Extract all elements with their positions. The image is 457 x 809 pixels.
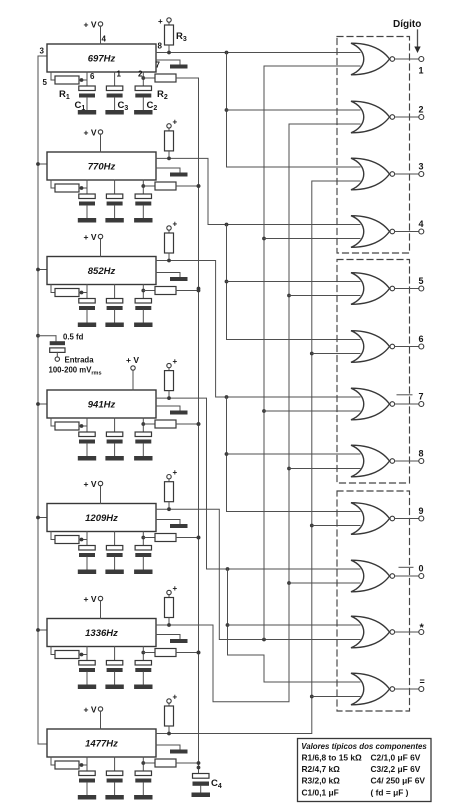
node +V (pin 4) of 1209Hz: [84, 479, 103, 504]
svg-text:C4: C4: [211, 778, 222, 790]
node output terminal digit 7: [419, 392, 424, 407]
NOR gate G12 (digit =): [351, 673, 419, 705]
capacitor (pin 1) of 941Hz: [106, 418, 122, 456]
capacitor (pin 6) of 941Hz: [79, 418, 95, 456]
resistor R3 of 770Hz: [165, 117, 178, 158]
svg-text:0.5 fd: 0.5 fd: [63, 333, 84, 342]
svg-text:R2/4,7 kΩ: R2/4,7 kΩ: [302, 764, 341, 774]
svg-text:+: +: [173, 357, 178, 366]
resistor R3 of 697Hz: [158, 17, 187, 53]
svg-text:852Hz: 852Hz: [88, 266, 116, 277]
ground (cap 2) of 941Hz: [105, 456, 123, 461]
ground (pin 7) of 697Hz: [156, 60, 188, 69]
svg-text:8: 8: [419, 449, 424, 459]
resistor R2 of 1336Hz: [141, 649, 200, 657]
svg-text:+: +: [173, 468, 178, 477]
svg-text:4: 4: [102, 35, 107, 44]
svg-text:5: 5: [419, 276, 424, 286]
wire stub at gate G7: [397, 394, 412, 396]
svg-text:0: 0: [419, 564, 424, 574]
node output terminal digit 1: [419, 57, 424, 76]
capacitor (pin 1) of 852Hz: [106, 285, 122, 323]
svg-text:100-200 mVrms: 100-200 mVrms: [49, 366, 102, 377]
svg-text:C1/0,1 μF: C1/0,1 μF: [302, 787, 339, 797]
NOR gate G6 (digit 6): [351, 331, 419, 363]
NOR gate G10 (digit 0): [351, 560, 419, 592]
wire input bus (pin 3 bus on left): [36, 56, 47, 744]
ground (cap 3) of 1209Hz: [134, 570, 152, 575]
IC package outline (quad NOR gate 3): [337, 491, 410, 711]
NOR gate G2 (digit 2): [351, 101, 419, 133]
resistor R2 of 1209Hz: [141, 534, 200, 542]
wire stub at gate G0: [399, 566, 413, 568]
svg-text:=: =: [420, 677, 425, 687]
svg-text:*: *: [420, 622, 425, 634]
resistor R2 of 852Hz: [141, 287, 200, 295]
svg-text:+ V: + V: [84, 128, 97, 138]
svg-text:7: 7: [419, 392, 424, 402]
IC U7 tone decoder 1477Hz: [47, 729, 156, 757]
svg-text:2: 2: [419, 105, 424, 115]
svg-text:R3/2,0 kΩ: R3/2,0 kΩ: [302, 776, 341, 786]
IC U2 tone decoder 770Hz: [47, 152, 156, 180]
capacitor (pin 6) of 770Hz: [79, 180, 95, 218]
NOR gate G3 (digit 3): [351, 158, 419, 190]
resistor R1 of 941Hz: [51, 418, 87, 430]
IC U4 tone decoder 941Hz: [47, 390, 156, 418]
svg-text:1: 1: [419, 66, 424, 76]
svg-text:( fd = μF ): ( fd = μF ): [371, 787, 409, 797]
node output terminal digit 5: [419, 276, 424, 291]
svg-text:R3: R3: [176, 31, 187, 43]
resistor R3 of 1209Hz: [165, 468, 178, 509]
ground (cap 2) of 770Hz: [105, 218, 123, 223]
ground (cap 3) of 852Hz: [134, 323, 152, 328]
ground (cap 2) of 1209Hz: [105, 570, 123, 575]
ground (pin 7) of 1336Hz: [156, 635, 188, 644]
svg-text:+ V: + V: [84, 705, 97, 715]
capacitor C3 of 697Hz: [106, 72, 128, 112]
IC package outline (quad NOR gate 1): [337, 37, 410, 254]
svg-text:697Hz: 697Hz: [88, 54, 116, 65]
ground (cap 2) of 697Hz: [105, 110, 123, 115]
capacitor (pin 2) of 770Hz: [135, 180, 151, 218]
svg-text:+: +: [173, 220, 178, 229]
node output terminal digit 4: [419, 219, 424, 234]
svg-text:+ V: + V: [84, 594, 97, 604]
svg-text:Dígito: Dígito: [393, 19, 421, 30]
resistor R1 of 1336Hz: [51, 647, 87, 659]
capacitor C2 of 697Hz: [135, 72, 157, 112]
resistor R1 of 1209Hz: [51, 532, 87, 544]
resistor R3 of 941Hz: [165, 357, 178, 398]
ground (pin 7) of 1477Hz: [156, 745, 188, 754]
resistor R1 of 852Hz: [51, 285, 87, 297]
svg-text:941Hz: 941Hz: [88, 400, 116, 411]
wire net 1336Hz output to gates 2,5,8,0: [156, 124, 360, 702]
ground (cap 1) of 1209Hz: [78, 570, 96, 575]
ground (cap 2) of 1477Hz: [105, 795, 123, 800]
svg-text:1477Hz: 1477Hz: [85, 739, 118, 750]
node output terminal digit =: [419, 677, 425, 692]
input terminal Entrada: [49, 356, 102, 377]
ground (pin 7) of 941Hz: [156, 406, 188, 415]
ground (cap 1) of 770Hz: [78, 218, 96, 223]
svg-text:+: +: [173, 117, 178, 126]
wire net 697Hz output to gates 1,2,3: [156, 51, 360, 167]
capacitor C4: [193, 774, 222, 793]
resistor R2 of 770Hz: [141, 182, 200, 190]
capacitor (pin 2) of 1209Hz: [135, 532, 151, 570]
NOR gate G5 (digit 5): [351, 273, 419, 305]
table of component values: [298, 739, 432, 802]
node Digito label and arrow: [393, 19, 421, 53]
ground (cap 2) of 1336Hz: [105, 685, 123, 690]
node output terminal digit 3: [419, 162, 424, 177]
capacitor (pin 1) of 1477Hz: [106, 757, 122, 795]
node +V (pin 4) of 1477Hz: [84, 705, 103, 730]
node output terminal digit 9: [419, 506, 424, 521]
node +V (pin 4) of 941Hz: [126, 355, 139, 390]
ground (cap 1) of 1477Hz: [78, 795, 96, 800]
resistor R2 of 941Hz: [141, 420, 200, 428]
wire input tap: [36, 334, 56, 341]
wire R2 chain bus: [197, 78, 201, 774]
node output terminal digit 0: [419, 564, 424, 579]
ground (cap 3) of 941Hz: [134, 456, 152, 461]
capacitor (pin 2) of 1336Hz: [135, 647, 151, 685]
capacitor (pin 6) of 1336Hz: [79, 647, 95, 685]
capacitor (pin 1) of 770Hz: [106, 180, 122, 218]
svg-text:8: 8: [158, 42, 163, 51]
svg-text:R1/6,8 to 15 kΩ: R1/6,8 to 15 kΩ: [302, 753, 363, 763]
svg-text:R1: R1: [59, 89, 70, 101]
NOR gate G4 (digit 4): [351, 216, 419, 248]
capacitor (pin 2) of 941Hz: [135, 418, 151, 456]
capacitor (pin 1) of 1209Hz: [106, 532, 122, 570]
capacitor (pin 1) of 1336Hz: [106, 647, 122, 685]
capacitor (pin 6) of 1209Hz: [79, 532, 95, 570]
svg-text:4: 4: [419, 219, 424, 229]
IC U5 tone decoder 1209Hz: [47, 504, 156, 532]
svg-text:6: 6: [90, 72, 95, 81]
node output terminal digit 6: [419, 334, 424, 349]
capacitor C1 of 697Hz: [75, 72, 96, 112]
NOR gate G8 (digit 8): [351, 445, 419, 477]
resistor R2 of 1477Hz: [141, 759, 200, 767]
ground (cap 1) of 1336Hz: [78, 685, 96, 690]
node output terminal digit *: [419, 622, 425, 635]
IC package outline (quad NOR gate 2): [337, 260, 410, 484]
resistor R1 of 1477Hz: [51, 757, 87, 769]
svg-text:1209Hz: 1209Hz: [85, 513, 118, 524]
svg-text:+: +: [158, 17, 163, 26]
ground (cap 3) of 1477Hz: [134, 795, 152, 800]
resistor R3 of 1336Hz: [165, 584, 178, 625]
node output terminal digit 8: [419, 449, 424, 464]
node +V (pin 4) of 852Hz: [84, 232, 103, 257]
svg-text:+ V: + V: [84, 479, 97, 489]
ground (pin 7) of 770Hz: [156, 168, 188, 177]
IC U1 tone decoder 697Hz: [47, 44, 156, 72]
IC U6 tone decoder 1336Hz: [47, 619, 156, 647]
ground (cap 3) of 770Hz: [134, 218, 152, 223]
svg-text:C2/1,0 μF 6V: C2/1,0 μF 6V: [371, 753, 421, 763]
wire net 1209Hz output to gates 1,4,7,*: [156, 66, 360, 641]
svg-text:Entrada: Entrada: [65, 356, 95, 365]
svg-text:+ V: + V: [84, 20, 97, 30]
ground (cap 2) of 852Hz: [105, 323, 123, 328]
svg-text:770Hz: 770Hz: [88, 162, 116, 173]
svg-text:+ V: + V: [126, 355, 139, 365]
svg-text:3: 3: [40, 47, 45, 56]
IC U3 tone decoder 852Hz: [47, 257, 156, 285]
ground (pin 7) of 1209Hz: [156, 520, 188, 529]
svg-text:C3/2,2 μF 6V: C3/2,2 μF 6V: [371, 764, 421, 774]
svg-text:+: +: [173, 693, 178, 702]
wire net 852Hz output to gates 7,8,9: [156, 259, 360, 512]
svg-text:R2: R2: [157, 89, 168, 101]
node +V (pin 4) of 1336Hz: [84, 594, 103, 619]
ground (cap 1) of 697Hz: [78, 110, 96, 115]
svg-text:1: 1: [117, 70, 122, 79]
resistor R3 of 852Hz: [165, 220, 178, 261]
NOR gate G1 (digit 1): [351, 43, 419, 75]
wire net 941Hz output to gates 0,*,#: [156, 396, 360, 682]
NOR gate G11 (digit *): [351, 616, 419, 648]
capacitor (pin 2) of 852Hz: [135, 285, 151, 323]
wire net 1477Hz output to gates 3,6,9,#: [156, 181, 360, 735]
resistor R1 of 770Hz: [51, 180, 87, 192]
capacitor (pin 2) of 1477Hz: [135, 757, 151, 795]
svg-text:9: 9: [419, 506, 424, 516]
resistor R1 of 697Hz: [51, 72, 87, 101]
capacitor 0.5fd input coupling: [50, 333, 84, 357]
node +V (pin 4) of 697Hz: [84, 20, 103, 45]
NOR gate G7 (digit 7): [351, 388, 419, 420]
resistor R3 of 1477Hz: [165, 693, 178, 734]
ground (cap 3) of 1336Hz: [134, 685, 152, 690]
ground (cap 1) of 852Hz: [78, 323, 96, 328]
wire net 770Hz output to gates 4,5,6: [156, 157, 360, 340]
svg-text:6: 6: [419, 334, 424, 344]
capacitor (pin 6) of 852Hz: [79, 285, 95, 323]
svg-text:3: 3: [419, 162, 424, 172]
svg-text:1336Hz: 1336Hz: [85, 628, 118, 639]
capacitor (pin 6) of 1477Hz: [79, 757, 95, 795]
node output terminal digit 2: [419, 105, 424, 120]
svg-text:5: 5: [43, 78, 48, 87]
ground (cap 3) of 697Hz: [134, 110, 152, 115]
svg-text:7: 7: [156, 61, 161, 70]
ground (pin 7) of 852Hz: [156, 273, 188, 282]
NOR gate G9 (digit 9): [351, 503, 419, 535]
svg-text:+: +: [173, 584, 178, 593]
node +V (pin 4) of 770Hz: [84, 128, 103, 153]
ground (cap 1) of 941Hz: [78, 456, 96, 461]
resistor R2 of 697Hz: [141, 74, 198, 101]
pin labels of U1: [40, 35, 163, 88]
ground (C4): [192, 793, 211, 798]
svg-text:Valores típicos dos componente: Valores típicos dos componentes: [301, 742, 427, 751]
svg-text:C4/ 250 μF 6V: C4/ 250 μF 6V: [371, 776, 426, 786]
svg-text:2: 2: [138, 70, 143, 79]
svg-text:+ V: + V: [84, 232, 97, 242]
